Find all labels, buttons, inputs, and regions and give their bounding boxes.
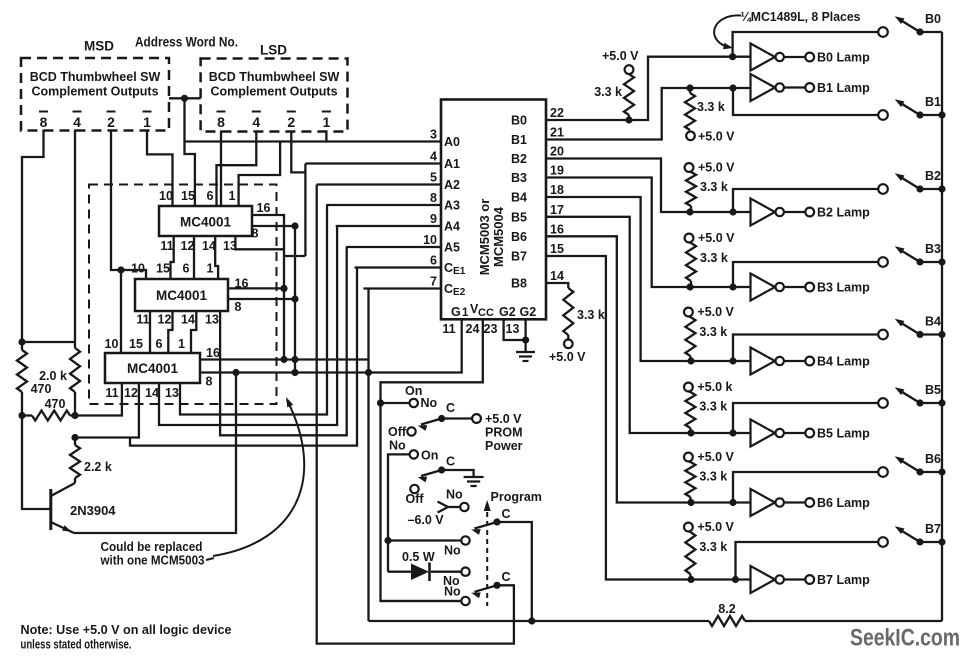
wire G2 pin 13 [524,319,526,352]
svg-text:B7: B7 [925,522,941,536]
svg-text:MC4001: MC4001 [180,215,232,230]
inverter U5 B7 (1/4 MC1489L) [751,566,776,593]
node B1 switch common [916,111,923,118]
terminal B2 lamp [805,208,814,217]
svg-text:12: 12 [124,386,138,400]
resistor R8 3.3k (B2) [686,172,696,206]
node 2.2k top junction [71,434,78,441]
svg-text:A3: A3 [444,199,460,213]
node B0 switch common [916,28,923,35]
wire B4 net [546,197,751,361]
svg-text:Note: Use +5.0 V on all logic: Note: Use +5.0 V on all logic device [21,622,232,637]
svg-text:11: 11 [105,386,118,400]
svg-text:6: 6 [430,254,437,268]
switch S10 arm [421,470,442,476]
terminal +5.0V (B7) [684,523,693,532]
svg-text:2.2 k: 2.2 k [84,460,112,474]
wire B5 lamp output [784,432,805,434]
svg-text:+5.0 V: +5.0 V [698,130,735,144]
wire 2.0k top [22,341,75,343]
node V3/no1 junction [384,537,391,544]
resistor R9 3.3k (B3) [686,243,696,281]
node bus junction B2 [938,185,945,192]
inverter U5 B2 (1/4 MC1489L) [751,199,776,226]
svg-text:B8: B8 [511,277,527,291]
svg-text:SeekIC.com: SeekIC.com [850,625,960,652]
wire emitter to G1 net [74,373,236,534]
svg-text:+5.0 V: +5.0 V [485,412,522,426]
svg-text:3.3 k: 3.3 k [699,470,727,484]
wire U3 pin 13 to A5 riser [220,247,347,435]
wire B6 lamp output [784,501,805,503]
svg-text:BCD Thumbwheel SW: BCD Thumbwheel SW [209,70,340,84]
svg-text:Off: Off [388,425,407,439]
wire branch to U4 pin 10 [120,270,122,353]
wire U2 pin 12 to U3 pin 6 [193,236,195,279]
terminal +5.0V (B4) [684,308,693,317]
wire U2 pin 13 to pin16 bus [235,236,284,249]
wire pin8 bus [294,226,296,373]
svg-text:B2: B2 [925,169,941,183]
arrow to dashed box [213,400,304,556]
terminal B0 switch throw [878,27,888,37]
svg-text:3.3 k: 3.3 k [594,85,622,99]
switch S13 arm [475,585,498,592]
svg-text:Address Word No.: Address Word No. [135,35,238,50]
wire B0 lamp output [784,56,805,58]
wire B2 common to bus [920,188,942,190]
node bus junction B7 [938,538,945,545]
svg-text:+5.0 V: +5.0 V [602,49,639,63]
node MSD2/U4 branch [117,266,124,273]
svg-text:13: 13 [506,322,520,336]
wire B2 lamp output [784,211,805,213]
svg-text:+5.0 V: +5.0 V [698,231,735,245]
svg-text:3.3 k: 3.3 k [697,100,725,114]
terminal B2 switch throw [878,184,888,194]
svg-text:3.3 k: 3.3 k [699,540,727,554]
svg-text:B5: B5 [925,383,941,397]
wire link down to A0/strobe [185,98,195,206]
svg-text:5: 5 [430,171,437,185]
svg-text:+5.0 V: +5.0 V [698,161,735,175]
svg-text:¼MC1489L, 8 Places: ¼MC1489L, 8 Places [741,10,861,24]
wire B2 net [546,159,751,213]
node B5 pullup junction [687,429,694,436]
node U4 pin16 junction a [280,356,287,363]
svg-text:MCM5004: MCM5004 [491,206,506,267]
program dashed line [486,512,488,606]
svg-text:17: 17 [550,203,564,217]
node U3 pin8 junction [291,295,298,302]
svg-text:8: 8 [40,114,48,130]
gate U3 MC4001 (middle) [135,279,228,311]
svg-text:1: 1 [178,337,185,351]
svg-text:1: 1 [323,114,331,130]
svg-text:11: 11 [136,313,149,327]
switch S9 arm [421,419,442,425]
svg-text:B4: B4 [925,315,941,329]
svg-text:8: 8 [235,300,242,314]
svg-text:18: 18 [550,183,564,197]
svg-text:MC4001: MC4001 [156,288,208,303]
svg-text:No: No [389,439,406,453]
switch S3 B2 arm [898,176,920,190]
svg-text:14: 14 [550,269,564,283]
node link junction [181,95,188,102]
svg-text:3.3 k: 3.3 k [577,308,605,322]
diode D1 0.5W [411,564,429,581]
program arrow head [484,500,491,511]
terminal +5.0V (B8) [564,340,573,349]
svg-text:2.0 k: 2.0 k [39,369,67,383]
wire V3 column [388,454,410,571]
wire B7 net [546,256,751,580]
terminal +5.0V (B1) [686,132,695,141]
wire U3 pin 12 to U4 pin 6 [168,311,172,353]
transistor Q1 2N3904 base bar [49,489,52,530]
wire U3 pin 11 to U4 pin 15 [149,311,151,353]
svg-text:3.3 k: 3.3 k [699,400,727,414]
svg-text:2N3904: 2N3904 [70,503,116,518]
terminal B7 switch throw [878,537,888,547]
node G1/V1 junction [365,369,372,376]
node B5 switch common [916,399,923,406]
svg-text:B1: B1 [511,133,527,147]
svg-text:B7 Lamp: B7 Lamp [817,573,870,587]
wire U2 pin 11 to U3 pin 15 [171,236,174,279]
wire switch4 No to column [381,600,462,602]
svg-text:19: 19 [550,164,564,178]
svg-text:2: 2 [107,114,115,130]
terminal B1 lamp [805,83,814,92]
svg-text:1: 1 [143,114,151,130]
svg-text:1: 1 [229,189,236,203]
node B3 switch junction [729,283,736,290]
node B7 switch common [916,538,923,545]
svg-text:Power: Power [485,439,523,453]
terminal switch3 No [461,536,469,544]
wire B4 common to bus [920,333,942,335]
node switch4 common [493,582,500,589]
terminal B7 lamp [805,575,814,584]
wire U4 pin 14 to A4 riser [159,226,337,425]
node B0 switch junction [729,53,736,60]
svg-text:B3: B3 [925,242,941,256]
svg-text:Complement Outputs: Complement Outputs [210,85,337,99]
svg-text:B0 Lamp: B0 Lamp [817,51,870,65]
wire LSD pin 1 to A0 [325,131,327,142]
Q1 collector [51,483,75,496]
node B3 pullup junction [686,283,693,290]
node B2 pullup junction [686,208,693,215]
node B2 switch junction [729,208,736,215]
inverter U5 B3 (1/4 MC1489L) [751,274,776,301]
resistor R5 3.3k (B8) [563,288,573,335]
resistor R3 470 (horizontal) [32,411,70,421]
svg-text:16: 16 [550,222,564,236]
terminal switch1 On/No [410,399,418,407]
wire 470 to U4 pin 11 [75,383,122,416]
svg-text:No: No [421,396,438,410]
svg-text:+5.0 V: +5.0 V [549,350,586,364]
node B0 pullup junction [625,116,632,123]
svg-text:B1 Lamp: B1 Lamp [817,81,870,95]
svg-text:A2: A2 [444,178,460,192]
node 470 bottom junction [18,412,25,419]
wire common to +5 terminal [442,417,472,419]
svg-text:6: 6 [156,337,163,351]
svg-text:MCM5003 or: MCM5003 or [477,199,492,276]
svg-text:13: 13 [165,386,179,400]
svg-text:Could be replaced: Could be replaced [101,540,203,554]
svg-text:16: 16 [206,346,220,360]
svg-text:4: 4 [252,114,260,130]
wire diode anode [388,571,411,573]
wire CE1 riser [130,268,357,446]
node switch1 common [438,415,445,422]
wire switch3 No to column [388,539,461,541]
svg-text:11: 11 [160,239,173,253]
wire MSD pin 1 to U2 pin 10 [147,130,173,207]
svg-text:Program: Program [491,490,542,504]
wire B0 common to bus [920,31,942,33]
wire B0 switch to inverter input [733,32,879,57]
wire U2 pin 16 [252,215,284,360]
inverter U5 B5 (1/4 MC1489L) [751,420,776,447]
svg-text:B3: B3 [511,171,527,185]
svg-text:13: 13 [205,313,219,327]
svg-text:A4: A4 [444,220,460,234]
svg-text:15: 15 [156,262,170,276]
resistor R12 3.3k (B6) [685,462,695,497]
node U2 pin8 junction [291,222,298,229]
svg-text:2: 2 [287,114,295,130]
node 2.0k bottom junction [71,412,78,419]
terminal +5.0V (B5) [684,383,693,392]
resistor R11 3.3k (B5) [685,392,695,428]
terminal B3 switch throw [878,257,888,267]
wire to +5 terminal [567,335,569,340]
wire B1 net [546,88,751,140]
svg-text:B2 Lamp: B2 Lamp [817,206,870,220]
svg-text:+5.0 V: +5.0 V [697,520,734,534]
wire G2 pin 23 [504,319,526,340]
svg-text:20: 20 [550,145,564,159]
terminal -6V switch [460,503,468,511]
node U3 pin16 junction [280,285,287,292]
svg-text:G: G [451,305,461,319]
wire A5 [346,246,441,248]
terminal B3 lamp [805,283,814,292]
svg-text:10: 10 [131,262,145,276]
svg-text:Complement Outputs: Complement Outputs [31,85,158,99]
svg-text:B6 Lamp: B6 Lamp [817,496,870,510]
terminal +5.0V (B3) [685,234,694,243]
BCD thumbwheel switch box MSD [21,58,169,131]
svg-text:+5.0 V: +5.0 V [697,450,734,464]
resistor R1 470 (left) [17,350,27,392]
svg-text:3.3 k: 3.3 k [700,180,728,194]
node B6 switch common [916,468,923,475]
svg-text:3.3 k: 3.3 k [700,251,728,265]
svg-text:15: 15 [129,337,143,351]
svg-text:C: C [446,455,455,469]
wire switch3 common down [497,522,532,621]
svg-text:15: 15 [181,189,195,203]
node B4 switch junction [729,357,736,364]
wire diode cathode [431,571,461,573]
svg-text:10: 10 [105,337,119,351]
wire CE2 [363,287,441,289]
svg-text:B7: B7 [511,250,527,264]
node B1 pullup junction [686,84,693,91]
svg-text:470: 470 [31,382,52,396]
wire U2 pin 14 to U3 pin 1 [215,236,218,279]
switch S8 B7 arm [898,529,920,543]
resistor R7 3.3k (B1) [685,93,695,130]
terminal B0 lamp [805,53,814,62]
wire B4 switch to inverter input [733,335,879,362]
wire A4 [336,225,441,227]
wire pin16 bus stub to A1 riser [284,255,305,257]
wire B6 net [546,236,751,502]
terminal diode No [461,568,469,576]
wire A1 [305,162,441,164]
wire CE2 riser (V1) [367,289,369,622]
svg-text:CC: CC [478,307,494,319]
svg-text:16: 16 [257,201,271,215]
svg-text:G2: G2 [520,305,537,319]
svg-text:B1: B1 [925,95,941,109]
svg-text:No: No [444,585,461,599]
resistor R4 2.2k [70,445,80,478]
switch S11 -6V arm [438,502,449,508]
wire U4 pin 12 to 2.2k [75,383,139,438]
node bus junction B6 [938,468,945,475]
node 470/2.0k top junction [18,338,25,345]
svg-text:21: 21 [550,126,564,140]
terminal B4 switch throw [878,330,888,340]
gate U2 MC4001 (top) [159,206,252,236]
svg-text:11: 11 [442,322,455,336]
node bus junction B5 [938,399,945,406]
wire U4 pin16 bus [200,358,369,360]
switch S12 arm [475,522,498,529]
svg-text:G2: G2 [499,305,516,319]
arrow to inverter [714,15,741,46]
wire B3 switch to inverter input [733,262,879,287]
switch S2 B1 arm [898,102,920,116]
svg-text:B4 Lamp: B4 Lamp [817,355,870,369]
wire B2 switch to inverter input [733,189,879,212]
node U4 pin16 junction b [291,356,298,363]
svg-text:MC4001: MC4001 [127,361,179,376]
svg-text:+5.0 V: +5.0 V [697,305,734,319]
wire base [22,416,51,510]
node bus junction B3 [938,258,945,265]
wire B1 lamp output [784,86,805,88]
wire B7 switch to inverter input [736,542,879,580]
wire switch1 throw [381,402,410,404]
svg-text:7: 7 [430,275,437,289]
svg-text:B5: B5 [511,210,527,224]
switch S6 B5 arm [898,390,920,404]
svg-text:14: 14 [181,313,195,327]
wire CE1 [355,266,442,268]
svg-text:C: C [502,507,511,521]
svg-text:–6.0 V: –6.0 V [408,513,445,527]
dashed box (replaceable by MCM5003) [89,185,277,405]
svg-text:12: 12 [181,239,195,253]
svg-text:12: 12 [158,313,172,327]
wire right bus [941,32,943,621]
wire LSD pin 8 to U2 pin 1 [220,131,222,207]
node bus junction B4 [938,331,945,338]
svg-text:10: 10 [159,189,173,203]
svg-text:4: 4 [73,114,81,130]
wire G1 net (U4 pin 8 - G1) [200,319,462,372]
wire B7 common to bus [920,541,942,543]
svg-text:A0: A0 [444,135,460,149]
IC U1 MCM5003/MCM5004 body [441,100,546,320]
wire B6 switch to inverter input [733,472,879,503]
wire B6 common to bus [920,471,942,473]
node B3 switch common [916,258,923,265]
svg-text:470: 470 [45,397,66,411]
node B5 switch junction [729,429,736,436]
wire B3 lamp output [784,286,805,288]
wire A3 [326,204,441,206]
switch S7 B6 arm [898,459,920,473]
wire common to ground [442,470,474,477]
node bus junction B1 [938,111,945,118]
wire bottom rail right [745,620,942,622]
terminal B5 switch throw [878,398,888,408]
svg-text:B0: B0 [511,114,527,128]
resistor R6 3.3k (B0) [624,74,634,115]
terminal +5.0V (B0) [625,65,634,74]
svg-text:LSD: LSD [260,43,287,58]
svg-text:B3 Lamp: B3 Lamp [817,281,870,295]
wire MSD-LSD link [169,97,201,99]
svg-text:22: 22 [550,106,564,120]
svg-text:C: C [446,401,455,415]
wire U3 pin 16 [228,287,284,289]
svg-text:4: 4 [430,150,437,164]
svg-text:23: 23 [484,322,498,336]
svg-text:15: 15 [550,242,564,256]
svg-text:No: No [446,488,463,502]
resistor R10 3.3k (B4) [685,317,695,356]
terminal B4 lamp [805,357,814,366]
wire B4 lamp output [784,360,805,362]
resistor R13 3.3k (B7) [685,532,695,574]
svg-text:Off: Off [406,492,425,506]
svg-text:1: 1 [462,307,469,319]
resistor R2 2.0k [70,348,80,392]
svg-text:8: 8 [217,114,225,130]
svg-text:unless stated otherwise.: unless stated otherwise. [21,637,132,652]
wire B8 stub [546,283,568,288]
terminal B6 lamp [805,498,814,507]
node B2 switch common [916,185,923,192]
wire VCC pin 24 [381,319,483,601]
switch S4 B3 arm [898,249,920,263]
node bottom rail junction [528,617,535,624]
wire B5 switch to inverter input [733,403,879,433]
wire U4 pin 13 to A3 riser [180,205,327,415]
